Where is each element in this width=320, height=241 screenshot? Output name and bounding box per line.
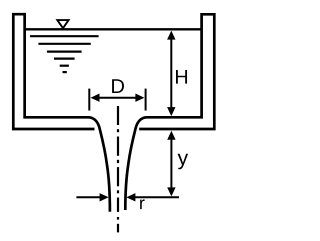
dimension r right arrowhead xyxy=(126,193,135,201)
tank left wall and bottom (outlined L-piece with orifice edge curving into jet) xyxy=(13,14,110,212)
label r xyxy=(140,199,145,209)
dimension H arrow line xyxy=(170,36,172,110)
centerline dash segment 4 xyxy=(117,198,119,212)
dimension H lower arrowhead xyxy=(167,107,175,116)
dimension r left line xyxy=(76,196,100,198)
label y xyxy=(178,154,189,170)
dimension D arrow line xyxy=(95,97,140,99)
centerline dash segment 1 xyxy=(117,106,119,125)
water hatch line 3 xyxy=(47,50,82,52)
centerline dash segment 5 xyxy=(117,224,119,233)
water hatch line 4 xyxy=(54,57,75,59)
water hatch line 6 xyxy=(63,71,67,73)
dimension H upper arrowhead xyxy=(167,31,175,40)
centerline dot 1 xyxy=(117,129,119,132)
centerline dot 4 xyxy=(117,217,119,220)
dimension y upper arrowhead xyxy=(167,131,175,140)
dimension D right tick xyxy=(145,89,147,111)
water surface line xyxy=(24,28,202,30)
label H xyxy=(176,70,187,84)
free-surface nabla symbol xyxy=(57,20,68,28)
dimension D left tick xyxy=(88,89,90,111)
water hatch line 5 xyxy=(60,65,69,67)
dimension y lower arrowhead xyxy=(167,187,175,196)
dimension y arrow line xyxy=(170,135,172,192)
label D xyxy=(112,79,124,93)
centerline dot 3 xyxy=(117,190,119,193)
centerline dash segment 2 xyxy=(117,137,119,156)
water hatch line 1 xyxy=(30,35,99,37)
water hatch line 2 xyxy=(38,43,90,45)
dimension D right arrowhead xyxy=(135,94,144,102)
dimension r left arrowhead xyxy=(100,193,109,201)
centerline dash segment 3 xyxy=(117,167,119,186)
tank right wall and bottom (mirror L-piece) xyxy=(125,14,214,210)
dimension D left arrowhead xyxy=(91,94,100,102)
centerline dot 2 xyxy=(117,160,119,163)
dimension r right line xyxy=(135,196,179,198)
